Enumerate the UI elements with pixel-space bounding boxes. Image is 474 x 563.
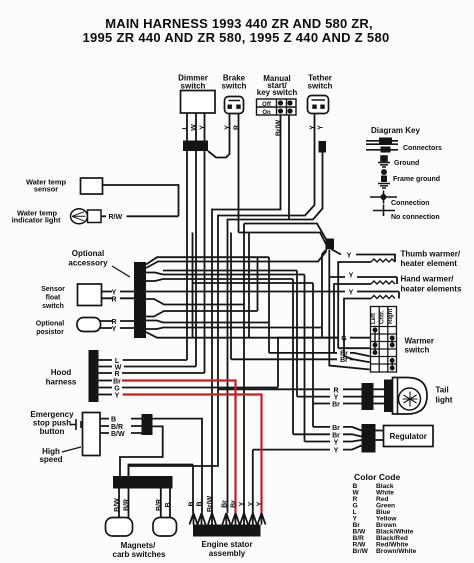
wire regulator Br1 xyxy=(313,427,362,431)
svg-text:Br/W: Br/W xyxy=(353,548,369,555)
svg-text:Thumb warmer/: Thumb warmer/ xyxy=(401,250,461,259)
svg-text:Optional: Optional xyxy=(36,321,64,328)
svg-text:Br: Br xyxy=(113,378,121,385)
wire hood W xyxy=(99,366,197,368)
svg-text:switch: switch xyxy=(181,82,206,91)
wire h223 to junction connector xyxy=(244,224,327,241)
svg-text:Frame ground: Frame ground xyxy=(393,176,440,183)
wire JC drop hand warmer feed xyxy=(329,250,397,370)
key connectors symbol xyxy=(366,141,398,150)
svg-text:Y: Y xyxy=(239,501,246,506)
svg-text:R: R xyxy=(111,319,116,326)
wire water temp sensor xyxy=(103,185,179,216)
wire manual Br/W down-left-down xyxy=(212,115,281,514)
svg-text:B/R: B/R xyxy=(156,499,163,511)
tail light connector xyxy=(362,383,374,410)
svg-text:Optional: Optional xyxy=(72,249,104,258)
svg-text:Y: Y xyxy=(112,326,117,333)
svg-text:No connection: No connection xyxy=(391,214,440,221)
svg-text:Connection: Connection xyxy=(391,200,430,207)
svg-text:Y: Y xyxy=(347,253,352,260)
wire manual right pin vertical xyxy=(288,115,290,220)
svg-text:Br/W: Br/W xyxy=(276,119,283,136)
wire posistor Y xyxy=(101,327,135,329)
svg-text:switch: switch xyxy=(222,82,247,91)
wire dimmer W vertical xyxy=(195,113,197,367)
svg-text:key switch: key switch xyxy=(257,88,298,97)
svg-text:Y: Y xyxy=(257,501,264,506)
wire tail light Br feed xyxy=(313,403,362,405)
svg-text:Warmer: Warmer xyxy=(405,337,435,346)
dimmer connector block xyxy=(183,141,208,152)
svg-text:switch: switch xyxy=(308,82,333,91)
wire stator Y1 vertical xyxy=(243,224,245,514)
wire thumb warmer loop xyxy=(331,249,395,348)
svg-text:B/R: B/R xyxy=(111,424,123,431)
svg-text:B: B xyxy=(111,416,116,423)
hood harness connector block xyxy=(89,350,99,402)
svg-text:heater elements: heater elements xyxy=(401,285,462,294)
svg-text:Y: Y xyxy=(200,125,207,130)
wire hood Y stub xyxy=(99,394,113,396)
wire hood G xyxy=(99,387,279,389)
wire emergency stub lines xyxy=(100,419,142,433)
svg-text:Br: Br xyxy=(231,500,238,508)
wire v297 tail Y riser xyxy=(163,271,297,397)
wire mid vertical v192.5 xyxy=(192,233,194,338)
wire h283 to v313 regulator Br1 xyxy=(193,283,314,427)
key no-connection symbol xyxy=(373,210,395,212)
key frame ground symbol xyxy=(381,169,387,175)
svg-text:Y: Y xyxy=(334,440,339,447)
svg-text:float: float xyxy=(46,295,61,302)
svg-text:Y: Y xyxy=(310,125,317,130)
wire sensor float Y through to hand warmer xyxy=(102,291,400,293)
wire brake R vertical xyxy=(238,113,240,233)
wire warmer Br2 branch xyxy=(231,233,353,360)
wire emergency B to stator B2 xyxy=(153,419,203,513)
wire block bottom diag to G row xyxy=(146,332,338,338)
bus bar xyxy=(113,476,173,489)
svg-text:Magnets/: Magnets/ xyxy=(121,541,156,550)
magnets/carb switches boxes xyxy=(106,518,133,537)
wire v304 riser regulator Y1 xyxy=(304,275,306,442)
svg-text:Hood: Hood xyxy=(51,368,72,377)
svg-text:Br: Br xyxy=(332,402,340,409)
wire block lower trapezoid posistor feeds xyxy=(146,321,269,323)
svg-text:R: R xyxy=(114,371,119,378)
tail light bar xyxy=(384,380,393,413)
svg-text:L: L xyxy=(182,125,189,130)
wire dimmer Y vertical xyxy=(204,113,206,373)
svg-text:R: R xyxy=(234,125,241,130)
wire tether Y2 down diag to stator Br1 xyxy=(228,153,323,514)
svg-text:Hand warmer/: Hand warmer/ xyxy=(401,275,455,284)
wire tail light R feed xyxy=(218,388,362,390)
wire tether Y1 down diag xyxy=(129,114,315,477)
junction connector JC xyxy=(326,239,335,250)
svg-text:switch: switch xyxy=(42,303,64,310)
wire G riser to warmer switch xyxy=(278,338,371,388)
wire regulator Br2 xyxy=(293,434,362,436)
svg-text:R: R xyxy=(333,387,338,394)
wire tail light Y feed xyxy=(297,396,362,398)
wire h232 to junction connector xyxy=(239,233,328,248)
svg-text:Color Code: Color Code xyxy=(354,472,401,482)
wire bus bar to stator B1 xyxy=(129,465,194,514)
red wire hood Br to stator xyxy=(122,381,262,514)
wire water temp indicator R/W xyxy=(127,215,179,217)
svg-text:sensor: sensor xyxy=(34,185,58,194)
wire dimmer L vertical xyxy=(186,113,188,360)
key connection symbol xyxy=(370,196,397,198)
wire posistor R xyxy=(101,320,135,322)
svg-text:B/W: B/W xyxy=(111,431,125,438)
svg-text:Left: Left xyxy=(371,313,377,324)
svg-text:Right: Right xyxy=(388,309,394,324)
wire emergency to bus bar xyxy=(120,426,163,476)
svg-text:harness: harness xyxy=(46,378,77,387)
svg-text:speed: speed xyxy=(39,455,62,464)
svg-text:Brown/White: Brown/White xyxy=(376,548,417,555)
svg-text:Cntr.: Cntr. xyxy=(380,310,386,324)
wire brake Y bend into connector xyxy=(208,113,230,158)
tether connector block xyxy=(319,141,327,153)
wire block fan top diag h257 xyxy=(146,257,269,264)
svg-text:Y: Y xyxy=(334,395,339,402)
svg-text:Diagram Key: Diagram Key xyxy=(371,126,420,135)
svg-text:MAIN HARNESS 1993 440 ZR AND 5: MAIN HARNESS 1993 440 ZR AND 580 ZR, xyxy=(105,16,373,31)
svg-text:Sensor: Sensor xyxy=(41,286,65,293)
warmer switch table xyxy=(371,307,397,373)
wire block house pair xyxy=(146,299,244,305)
svg-text:G: G xyxy=(114,385,120,392)
svg-text:Br/W: Br/W xyxy=(207,495,214,512)
svg-text:Y: Y xyxy=(334,448,339,455)
wire regulator Y2 to stator xyxy=(253,446,362,514)
stator arrows xyxy=(190,513,266,525)
svg-text:Ground: Ground xyxy=(394,160,419,167)
svg-text:Br: Br xyxy=(340,357,348,364)
svg-text:Br: Br xyxy=(332,432,340,439)
svg-text:Regulator: Regulator xyxy=(390,432,427,441)
engine stator assembly xyxy=(193,525,261,537)
wire hood R xyxy=(99,372,205,374)
svg-text:Br: Br xyxy=(221,500,228,508)
wire v269 riser xyxy=(269,257,337,353)
svg-text:B/W: B/W xyxy=(114,498,121,512)
svg-text:B: B xyxy=(189,501,196,506)
regulator connector xyxy=(362,424,376,453)
svg-text:Off: Off xyxy=(262,102,272,108)
svg-text:W: W xyxy=(191,124,198,131)
svg-text:G: G xyxy=(341,336,347,343)
svg-text:R/W: R/W xyxy=(109,214,123,221)
tail light housing xyxy=(393,378,428,415)
svg-text:B: B xyxy=(165,502,172,507)
regulator box xyxy=(384,426,434,447)
svg-text:Connectors: Connectors xyxy=(403,145,442,152)
svg-text:accessory: accessory xyxy=(68,259,108,268)
wire block trapezoid pair hand warmer feed xyxy=(146,273,305,275)
svg-text:Y: Y xyxy=(248,501,255,506)
svg-text:1995 ZR 440 AND ZR 580, 1995 Z: 1995 ZR 440 AND ZR 580, 1995 Z 440 AND Z… xyxy=(82,30,389,45)
wire hood L xyxy=(99,359,188,361)
svg-text:button: button xyxy=(40,427,65,436)
wire sensor float R xyxy=(102,297,135,299)
svg-text:assembly: assembly xyxy=(209,549,246,558)
svg-text:light: light xyxy=(436,396,453,405)
svg-text:indicator light: indicator light xyxy=(12,216,61,225)
wire regulator Y1 xyxy=(305,440,362,442)
wire v249 riser xyxy=(248,233,250,338)
svg-text:Br: Br xyxy=(332,425,340,432)
wire bus bar stubs down xyxy=(119,489,170,519)
wire hood Br stub xyxy=(99,380,113,382)
svg-text:B: B xyxy=(197,501,204,506)
wire hand warmer loop1 xyxy=(334,277,397,356)
svg-text:Y: Y xyxy=(349,290,354,297)
svg-text:Engine stator: Engine stator xyxy=(201,540,252,549)
wire hand warmer loop2 xyxy=(344,292,399,363)
emergency connector block xyxy=(142,414,153,435)
svg-text:heater element: heater element xyxy=(401,259,458,268)
optional accessory connector block xyxy=(134,262,146,338)
svg-text:Y: Y xyxy=(225,125,232,130)
svg-text:Y: Y xyxy=(349,273,354,280)
svg-text:R: R xyxy=(111,296,116,303)
wire JC left drop xyxy=(322,249,327,338)
svg-text:Y: Y xyxy=(115,392,120,399)
svg-text:On: On xyxy=(262,110,271,116)
svg-text:Tail: Tail xyxy=(436,386,449,395)
svg-text:B/R: B/R xyxy=(124,499,131,511)
svg-text:Y: Y xyxy=(318,125,325,130)
red wire hood Y to stator xyxy=(123,395,262,514)
svg-text:posistor: posistor xyxy=(36,329,64,336)
key ground symbol xyxy=(378,156,390,167)
svg-text:carb switches: carb switches xyxy=(113,550,166,559)
wire block fan h261 to JC xyxy=(146,251,327,268)
svg-text:switch: switch xyxy=(405,346,430,355)
